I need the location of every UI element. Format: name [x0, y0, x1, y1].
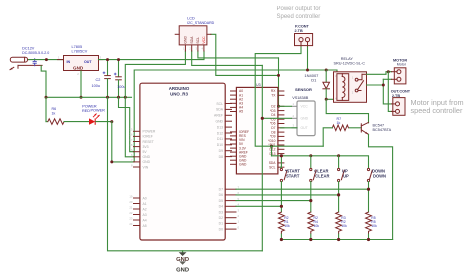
svg-text:D4: D4 [219, 205, 223, 209]
svg-text:19: 19 [129, 194, 133, 198]
wire LCD SDA net to U3 [192, 51, 263, 65]
resistor R3 pulldown CLEAR [308, 212, 314, 234]
svg-text:POWER: POWER [91, 108, 106, 112]
pushbutton S4 DOWN [367, 168, 372, 181]
sensor pin labels VCC GND OUT [301, 105, 309, 131]
wire resistor bottoms to rail [280, 234, 282, 239]
svg-text:2.TB: 2.TB [295, 29, 303, 33]
ground symbol GND (bottom center) [179, 252, 187, 264]
svg-text:10k: 10k [314, 224, 320, 228]
svg-text:U3: U3 [256, 83, 261, 87]
svg-text:D0: D0 [219, 227, 223, 231]
svg-text:SCL: SCL [269, 165, 276, 169]
node U3 D2 pin junction [277, 105, 280, 108]
svg-text:VIN: VIN [143, 165, 149, 169]
svg-text:2.TB: 2.TB [392, 94, 400, 98]
wire P.CONT pin1 to GND column [255, 47, 301, 87]
svg-text:A5: A5 [143, 224, 147, 228]
arduino left power pin numbers [129, 128, 133, 168]
svg-text:I2C_STANDARD: I2C_STANDARD [187, 21, 214, 25]
pushbutton S3 UP [338, 168, 345, 181]
U3 right pins stubs [278, 91, 284, 167]
node relay common branch [382, 84, 385, 87]
svg-text:GND: GND [176, 257, 189, 263]
wire D5 net to CLEAR button [236, 200, 311, 202]
U3 left pins stubs [231, 91, 237, 164]
svg-text:VCC: VCC [301, 105, 309, 109]
resistor R5 pulldown DOWN [366, 212, 372, 234]
svg-text:LCD: LCD [187, 17, 195, 21]
svg-text:POWER: POWER [143, 130, 156, 134]
arduino right upper pins stubs [225, 104, 231, 157]
svg-text:speed controller: speed controller [411, 106, 463, 115]
svg-text:1k: 1k [52, 111, 56, 115]
relay K1 SRU-12VDC-SL-C [334, 72, 367, 103]
svg-text:AREF: AREF [214, 114, 223, 118]
svg-text:2: 2 [77, 72, 79, 76]
node rail tee on P.CONT net [270, 145, 273, 148]
voltage regulator IC1 L7805 [58, 56, 104, 75]
wire D7 net to DOWN button [236, 188, 369, 190]
svg-text:UP: UP [343, 173, 349, 178]
svg-text:OUT: OUT [301, 126, 308, 130]
svg-text:IOREF: IOREF [143, 135, 153, 139]
node C3 bottom [117, 96, 120, 99]
wire sensor OUT / base net (left part) [281, 127, 298, 129]
node rail UP tap [337, 154, 340, 157]
node regulator GND junction [80, 96, 83, 99]
capacitor C2 [103, 60, 111, 98]
wire D6 net to UP button [236, 194, 339, 196]
wire UP column bottom [338, 182, 340, 212]
arduino right lower pins stubs [225, 189, 236, 229]
svg-text:L7805CV: L7805CV [72, 49, 88, 53]
svg-text:DOWN: DOWN [373, 173, 386, 178]
svg-text:A4: A4 [143, 218, 147, 222]
svg-text:GND: GND [239, 163, 247, 167]
node diode bottom junction [325, 98, 328, 101]
svg-text:15: 15 [129, 128, 133, 132]
wire P.CONT pin2 to 12V rail [307, 47, 309, 70]
resistor R7 base resistor [332, 125, 348, 131]
resistor R2 pulldown START [279, 212, 285, 234]
svg-text:IN: IN [67, 60, 71, 64]
ir sensor U2 VS1838B body [292, 101, 316, 136]
svg-text:Speed controller: Speed controller [277, 14, 321, 20]
svg-text:18: 18 [129, 143, 133, 147]
U3 right pin labels [268, 89, 276, 169]
wire button supply rail [272, 156, 369, 168]
svg-text:A5: A5 [239, 110, 243, 114]
connector P.CONT [295, 34, 313, 48]
svg-text:A3: A3 [143, 213, 147, 217]
transistor Q1 BC547 [361, 122, 368, 134]
wire regulator GND pin down to GND rail [80, 71, 82, 97]
svg-text:D1: D1 [219, 222, 223, 226]
svg-text:SENSOR: SENSOR [295, 87, 312, 92]
svg-text:5V: 5V [143, 150, 148, 154]
wire feed into button rail [271, 146, 273, 156]
node UP tap [337, 193, 340, 196]
wire VIN feed vertical [112, 122, 134, 162]
svg-text:20: 20 [129, 200, 133, 204]
svg-text:3V3: 3V3 [143, 145, 149, 149]
wire relay common to MOTOR pin2 and OUT.CONT pin1 [367, 85, 392, 104]
wire P.CONT gnd feed over U3 box [255, 87, 323, 146]
svg-text:23: 23 [129, 216, 133, 220]
arduino left analog pin labels A0-A5 [143, 196, 147, 228]
svg-text:0: 0 [238, 225, 240, 229]
svg-text:GND: GND [184, 36, 188, 44]
svg-text:GND: GND [143, 155, 151, 159]
svg-text:SDA: SDA [190, 36, 194, 44]
svg-text:D12: D12 [217, 131, 223, 135]
svg-text:UNO_R3: UNO_R3 [170, 91, 188, 96]
wire sensor GND to GND column [262, 117, 291, 119]
wire GND rail [46, 96, 132, 98]
svg-text:1k: 1k [337, 121, 341, 125]
node CLEAR tap [309, 199, 312, 202]
svg-text:A0: A0 [143, 196, 147, 200]
wire CLEAR column bottom [310, 182, 312, 212]
wire base resistor to P.CONT net [323, 128, 332, 146]
svg-text:D2: D2 [219, 216, 223, 220]
svg-text:10k: 10k [371, 224, 377, 228]
wire base resistor to transistor base [350, 127, 362, 129]
node motor feed junction [387, 70, 390, 73]
svg-text:3: 3 [100, 56, 102, 60]
svg-text:D8: D8 [219, 155, 223, 159]
wire LED to VIN drop [96, 121, 112, 123]
node P.CONT tap on 12V rail [306, 69, 309, 72]
svg-text:22: 22 [129, 211, 133, 215]
wire GND column over U3 box [261, 65, 263, 250]
wire 5V pin feed [119, 97, 134, 151]
header U3 body [236, 87, 278, 173]
connector OUT.CONT [392, 98, 406, 116]
svg-text:ARDUINO: ARDUINO [169, 86, 190, 91]
pushbutton S2 CLEAR [310, 168, 316, 181]
svg-text:D3: D3 [219, 210, 223, 214]
node rail UP [337, 238, 340, 241]
svg-text:RELAY: RELAY [341, 57, 354, 61]
svg-text:1: 1 [183, 47, 185, 51]
svg-text:D7: D7 [219, 188, 223, 192]
svg-text:SRU-12VDC-SL-C: SRU-12VDC-SL-C [334, 61, 366, 65]
U3 left pin labels [239, 89, 249, 166]
svg-text:VCC: VCC [202, 36, 206, 44]
svg-text:CLEAR: CLEAR [315, 173, 329, 178]
svg-text:GND: GND [215, 120, 223, 124]
wire sensor VCC to D2 node [279, 105, 292, 107]
LED1 POWER RED [89, 114, 100, 125]
wire jack tip to regulator IN [29, 59, 64, 61]
arduino left power pin labels [143, 130, 156, 170]
svg-text:RESET: RESET [143, 140, 154, 144]
svg-text:3: 3 [238, 208, 240, 212]
svg-text:START: START [286, 173, 300, 178]
svg-text:D9: D9 [219, 149, 223, 153]
svg-text:D13: D13 [217, 125, 223, 129]
dc jack X1 [10, 57, 42, 69]
node U3 feed at 75.4 [277, 74, 280, 77]
capacitor C1 (blue, at jack) [33, 58, 37, 66]
node DOWN tap [367, 188, 370, 191]
connector MOTOR [392, 68, 406, 84]
node LED branch on GND rail [45, 96, 48, 99]
svg-text:16: 16 [129, 133, 133, 137]
svg-text:100u: 100u [92, 84, 100, 88]
svg-text:Motor: Motor [397, 63, 407, 67]
svg-text:D5: D5 [219, 199, 223, 203]
svg-text:DC-B005-5.0-2.0: DC-B005-5.0-2.0 [22, 51, 49, 55]
arduino left analog pin numbers [129, 194, 133, 226]
arduino U1 body ARDUINO UNO_R3 [140, 83, 225, 240]
svg-text:BC547: BC547 [373, 123, 385, 127]
svg-text:VS1838B: VS1838B [292, 96, 309, 100]
svg-text:D6: D6 [219, 193, 223, 197]
wire 12V rail to relay [134, 70, 337, 162]
node START tap [280, 205, 283, 208]
wire U3 SCL stub to START column [280, 166, 283, 168]
wire START column top [280, 167, 282, 168]
svg-text:D10: D10 [217, 143, 223, 147]
node GND rail crossing x125.3 [124, 96, 127, 99]
svg-text:2: 2 [189, 47, 191, 51]
svg-text:A2: A2 [143, 207, 147, 211]
svg-text:8: 8 [131, 163, 133, 167]
wire emitter to ground return [369, 134, 393, 239]
wire bottom rail GND net [182, 251, 184, 253]
lcd connector LCD1 [175, 26, 211, 51]
svg-text:D13: D13 [269, 152, 275, 156]
svg-text:SDA: SDA [216, 108, 224, 112]
node diode tap on 12V rail [325, 69, 328, 72]
wire U3 feed vertical x278.5 [278, 58, 280, 106]
svg-text:L7805: L7805 [72, 45, 83, 49]
svg-text:1: 1 [293, 102, 295, 106]
wire DOWN column bottom [368, 182, 370, 212]
svg-text:DC12V: DC12V [22, 47, 35, 51]
arduino left power pins stubs [134, 131, 140, 167]
svg-text:D1: D1 [311, 78, 317, 83]
svg-text:Power output for: Power output for [277, 6, 321, 12]
svg-text:3: 3 [293, 124, 295, 128]
wire 5V rail from regulator OUT to LCD VCC [99, 51, 205, 60]
pushbutton S1 START [280, 168, 287, 181]
svg-text:17: 17 [129, 138, 133, 142]
wire relay NO contact to MOTOR pin1 [367, 72, 392, 75]
svg-text:RED: RED [82, 109, 90, 113]
svg-text:24: 24 [129, 222, 133, 226]
svg-text:OUT: OUT [84, 60, 92, 64]
wire jack sleeve to GND rail [41, 66, 46, 98]
wire LCD GND net down-left to arduino GND pin [125, 51, 185, 157]
svg-text:10k: 10k [341, 224, 347, 228]
arduino right upper pin labels [214, 102, 224, 159]
svg-text:100u: 100u [117, 85, 125, 89]
svg-text:C2: C2 [96, 78, 101, 82]
node rail CLEAR [309, 238, 312, 241]
svg-text:SCL: SCL [216, 102, 223, 106]
diode D1 1N4007 [323, 70, 330, 99]
svg-text:GND: GND [73, 65, 84, 70]
svg-text:SCL: SCL [196, 37, 200, 44]
wire long GND drop to bottom rail [108, 97, 263, 251]
node rail DOWN [367, 238, 370, 241]
capacitor C3 [114, 60, 121, 98]
node VIN feed junction [110, 160, 113, 163]
node rail START [280, 238, 283, 241]
svg-text:10k: 10k [284, 224, 290, 228]
svg-text:GND: GND [143, 160, 151, 164]
node C2 top [106, 58, 109, 61]
wire LCD side pin to U3 RX column [211, 34, 279, 75]
wire relay coil low side to transistor collector [326, 99, 368, 123]
svg-text:GND: GND [176, 267, 189, 273]
arduino left analog pins stubs [134, 198, 140, 226]
svg-text:P.CONT: P.CONT [295, 25, 310, 29]
node rail CLEAR tap [309, 154, 312, 157]
svg-text:D11: D11 [217, 137, 223, 141]
svg-text:1: 1 [238, 220, 240, 224]
node C3 top [117, 58, 120, 61]
wire D4 net to START button [236, 205, 281, 207]
svg-text:GND: GND [301, 117, 309, 121]
wire diode bottom to relay coil bottom [326, 98, 337, 100]
node U3 GND crossing sensor GND [261, 117, 264, 120]
wire UP column top [338, 156, 340, 168]
wire resistor ground rail [281, 239, 392, 241]
svg-text:2: 2 [238, 214, 240, 218]
svg-text:1: 1 [58, 56, 60, 60]
svg-text:BC547BTA: BC547BTA [373, 128, 392, 132]
wire CLEAR column top [310, 156, 312, 168]
resistor R6 (LED series) [46, 119, 89, 125]
resistor R4 pulldown UP [336, 212, 342, 234]
arduino right lower pin labels D7-D0 [219, 188, 223, 232]
node LED right [110, 120, 113, 123]
wire motor feed to OUT.CONT pin2 [388, 72, 391, 112]
wire LED branch down [45, 97, 47, 121]
svg-text:3: 3 [196, 47, 198, 51]
node junction jack/12V [45, 58, 48, 61]
svg-text:4: 4 [202, 47, 204, 51]
node C2 bottom [106, 96, 109, 99]
svg-text:21: 21 [129, 205, 133, 209]
arduino right lower pin numbers [238, 186, 240, 230]
svg-text:A1: A1 [143, 202, 147, 206]
wire LCD SCL net to GND column [198, 51, 279, 58]
wire START column bottom [280, 182, 282, 212]
svg-text:2: 2 [293, 114, 295, 118]
